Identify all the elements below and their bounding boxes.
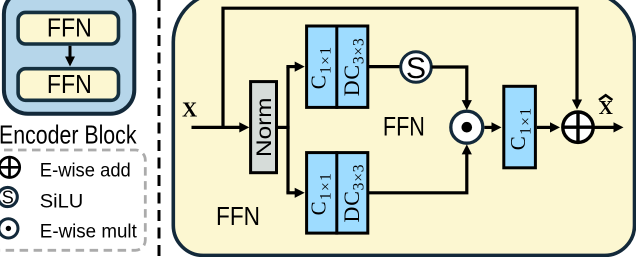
legend e-wise mult symbol	[0, 219, 18, 238]
svg-text:FFN: FFN	[47, 12, 92, 42]
label X input	[182, 97, 197, 121]
FFN panel	[173, 0, 634, 255]
legend e-wise add symbol	[0, 157, 20, 177]
svg-text:SiLU: SiLU	[40, 191, 84, 213]
separator dashed line	[158, 0, 161, 257]
svg-text:E-wise mult: E-wise mult	[40, 221, 138, 243]
wire mult to out conv	[485, 122, 502, 132]
label X hat output	[599, 95, 613, 119]
label FFN bottom	[216, 203, 260, 231]
legend SiLU text	[40, 191, 84, 213]
skip wire	[223, 8, 582, 127]
SiLU circle S	[401, 52, 432, 85]
svg-text:Encoder Block: Encoder Block	[0, 120, 137, 150]
FFN box 1	[18, 12, 118, 44]
add circle	[563, 112, 593, 142]
wire split to top conv	[286, 62, 304, 72]
out conv box C1x1	[504, 86, 536, 168]
svg-text:S: S	[2, 188, 14, 208]
svg-text:X: X	[182, 97, 197, 121]
wire split to bottom conv	[286, 188, 304, 198]
wire Norm to split	[278, 126, 290, 129]
wire X to Norm	[192, 122, 250, 132]
label FFN middle	[383, 112, 425, 142]
wire bottom conv to mult	[368, 144, 472, 192]
svg-text:FFN: FFN	[383, 112, 425, 142]
norm box	[251, 82, 277, 173]
bottom conv block C1x1 DC3x3	[307, 151, 368, 235]
FFN box 2	[18, 69, 118, 101]
legend SiLU symbol	[0, 187, 17, 207]
wire FFN1 to FFN2	[65, 46, 75, 67]
wire top conv to SiLU	[368, 65, 401, 68]
svg-text:FFN: FFN	[47, 69, 92, 99]
split wire riser	[286, 67, 289, 193]
legend dashed box	[0, 150, 145, 250]
encoder block container	[4, 0, 134, 114]
svg-text:S: S	[406, 52, 426, 85]
legend e-wise mult text	[40, 221, 138, 243]
svg-text:X: X	[599, 98, 613, 119]
wire add to output	[593, 122, 623, 132]
svg-text:Norm: Norm	[252, 98, 276, 158]
wire out conv to add	[537, 122, 560, 132]
svg-text:FFN: FFN	[216, 203, 260, 231]
legend e-wise add text	[40, 160, 131, 182]
wire SiLU to mult	[432, 67, 472, 110]
svg-text:E-wise add: E-wise add	[40, 160, 131, 182]
top conv block C1x1 DC3x3	[307, 25, 368, 109]
mult circle	[451, 111, 483, 143]
label Encoder Block	[0, 120, 137, 150]
